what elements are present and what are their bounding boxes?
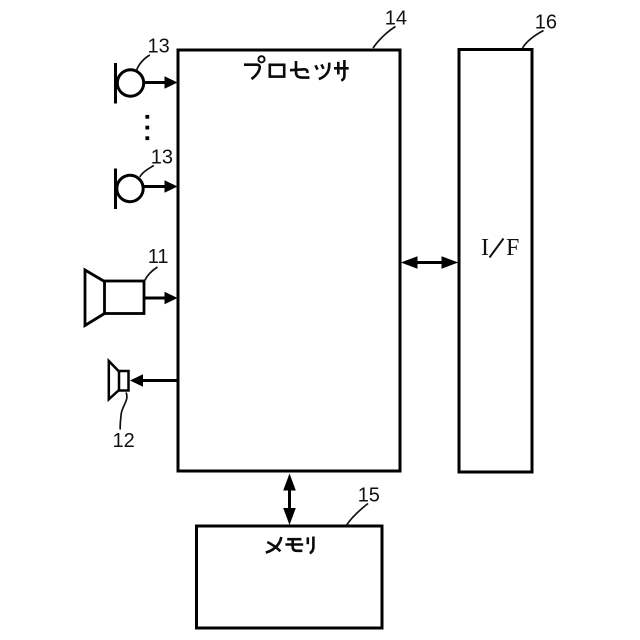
svg-text:13: 13 [151,147,173,169]
reference numeral 15 [358,485,380,507]
reference numeral 11 [148,246,169,268]
bidirectional arrow processor to memory [283,474,296,526]
leader line 13 bottom [140,166,154,178]
leader line 14 [373,27,396,49]
svg-text:16: 16 [535,12,557,34]
svg-text:11: 11 [148,246,169,268]
leader line 12 [120,393,127,430]
I/F block 16 [459,50,532,473]
microphone 13 (bottom) [116,169,144,210]
leader line 15 [346,504,368,527]
label メモリ [266,537,314,554]
leader line 16 [523,31,544,49]
arrow processor to speaker [130,374,178,386]
speaker 12 [109,361,129,399]
reference numeral 16 [535,12,557,34]
svg-text:12: 12 [113,430,135,452]
bidirectional arrow processor to I/F [401,256,458,269]
label プロセッサ [244,56,349,80]
svg-text:F: F [506,235,519,261]
camera 11 [85,270,144,326]
leader line 13 top [137,55,150,71]
leader line 11 [145,267,158,281]
arrow camera to processor [144,292,178,305]
arrow mic top to processor [144,76,178,89]
reference numeral 14 [385,8,407,30]
microphone 13 (top) [116,63,144,104]
label I/F [481,235,519,261]
svg-text:14: 14 [385,8,407,30]
reference numeral 13 (top) [148,36,170,58]
reference numeral 12 [113,430,135,452]
reference numeral 13 (bottom) [151,147,173,169]
arrow mic bottom to processor [143,180,178,193]
processor block 14 [178,50,400,471]
svg-text:13: 13 [148,36,170,58]
svg-text:I: I [481,235,489,261]
memory block 15 [197,526,383,628]
svg-text:15: 15 [358,485,380,507]
ellipsis dots [145,115,149,140]
